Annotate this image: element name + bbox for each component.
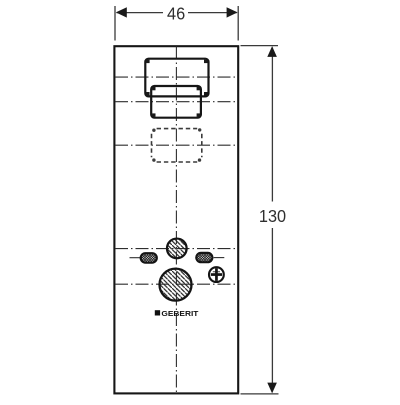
horizontal centerline lower plate xyxy=(115,101,238,103)
horizontal centerline upper pipe xyxy=(115,248,238,250)
dimension 46 arrow left xyxy=(116,7,127,17)
vertical centerline xyxy=(175,47,177,394)
service opening dashed right edge xyxy=(201,134,203,157)
dimension 130 line lower segment xyxy=(271,228,273,392)
dimension 130 extension line bottom xyxy=(241,393,279,395)
lower pipe circle xyxy=(160,269,192,301)
screw lower plate bottom-left xyxy=(152,113,155,116)
screw upper plate bottom-left xyxy=(146,92,150,96)
screw lower plate bottom-right xyxy=(197,113,200,116)
horizontal centerline service opening xyxy=(115,144,238,146)
dimension 130 line upper segment xyxy=(271,48,273,202)
left oval connector xyxy=(141,253,157,262)
service opening dashed bottom edge xyxy=(157,161,198,163)
screw upper plate top-right xyxy=(204,60,208,64)
svg-text:130: 130 xyxy=(259,206,286,226)
dimension 46 arrow right xyxy=(227,7,238,17)
svg-text:46: 46 xyxy=(167,3,185,23)
upper flush plate xyxy=(145,59,208,97)
upper pipe circle xyxy=(167,239,187,259)
service opening dot bottom-left xyxy=(152,158,155,161)
dimension 130 arrow top xyxy=(267,46,277,57)
service opening dashed top edge xyxy=(157,128,198,130)
centerline tick right oval xyxy=(214,257,225,259)
water connection circle xyxy=(209,267,224,282)
service opening dot bottom-right xyxy=(198,158,201,161)
service opening dot top-right xyxy=(198,128,201,131)
dimension 130 extension line top xyxy=(241,45,279,47)
lower flush plate xyxy=(151,86,201,118)
svg-text:GEBERIT: GEBERIT xyxy=(161,309,198,318)
dimension 46 line right segment xyxy=(188,12,237,14)
water connection cross vertical xyxy=(215,268,218,281)
Geberit logo square xyxy=(155,310,160,315)
dimension 46 line left segment xyxy=(117,12,164,14)
screw upper plate top-left xyxy=(146,60,150,64)
dimension 130 arrow bottom xyxy=(267,383,277,394)
horizontal centerline upper plate xyxy=(115,76,238,78)
service opening dot top-left xyxy=(152,129,155,132)
dimension 46 extension line right xyxy=(237,6,239,41)
centerline tick left oval xyxy=(130,257,141,259)
horizontal centerline lower pipe xyxy=(115,283,238,285)
screw lower plate top-left xyxy=(152,87,155,90)
module outline xyxy=(114,46,238,393)
screw lower plate top-right xyxy=(197,87,200,90)
dimension 46 extension line left xyxy=(114,6,116,41)
service opening dashed left edge xyxy=(151,134,153,157)
screw upper plate bottom-right xyxy=(204,92,208,96)
water connection detail bar xyxy=(213,270,220,273)
right oval connector xyxy=(196,253,212,262)
water connection cross horizontal xyxy=(211,273,222,276)
